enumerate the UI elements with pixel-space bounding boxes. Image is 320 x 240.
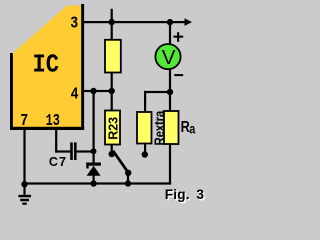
ground bar 2 bbox=[20, 199, 29, 201]
bottom rail wire bbox=[25, 182, 172, 184]
capacitor C7 left plate bbox=[70, 142, 73, 160]
wire voltmeter minus lead bbox=[169, 70, 171, 92]
pin 13 label bbox=[46, 112, 60, 131]
diode D1 cathode bar bbox=[86, 163, 101, 166]
svg-text:3: 3 bbox=[196, 187, 204, 202]
pin 7 label bbox=[20, 111, 28, 131]
wire C7 right lead bbox=[77, 150, 94, 152]
wire R1 to node B bbox=[111, 72, 113, 92]
wire pin3 horizontal bbox=[84, 21, 185, 23]
wire C7 left lead bbox=[55, 150, 70, 152]
wire R23 to switch terminal bbox=[111, 145, 113, 152]
wire pin7 down bbox=[23, 130, 25, 185]
diode D1 triangle bbox=[87, 166, 101, 176]
node A junction bbox=[109, 19, 115, 25]
switch pivot bbox=[125, 170, 131, 176]
switch terminal a bbox=[109, 151, 115, 157]
wire node minus down to Ra bbox=[169, 92, 171, 112]
voltmeter V1 body bbox=[155, 44, 180, 69]
minus sign bbox=[174, 74, 183, 76]
node top rail voltmeter junction bbox=[167, 19, 173, 25]
wire node A down to R1 bbox=[111, 22, 113, 40]
svg-text:V: V bbox=[162, 46, 176, 69]
switch terminal b bbox=[142, 151, 148, 157]
ground stem bbox=[23, 184, 25, 195]
node bottom rail diode junction bbox=[90, 180, 96, 186]
capacitor C7 right plate bbox=[74, 142, 77, 160]
wire stub above node A bbox=[111, 9, 113, 22]
IC right edge bbox=[81, 4, 84, 130]
svg-text:IC: IC bbox=[33, 51, 60, 80]
svg-text:Fig.: Fig. bbox=[165, 187, 190, 202]
op-amp IC body bbox=[13, 6, 81, 131]
ground bar 3 bbox=[22, 203, 26, 205]
wire node B down to R23 bbox=[111, 91, 113, 111]
svg-text:C7: C7 bbox=[49, 155, 67, 169]
arrow output bbox=[185, 18, 193, 26]
wire pivot to bottom rail bbox=[127, 173, 129, 184]
wire minus net horizontal bbox=[144, 91, 170, 93]
svg-text:R: R bbox=[181, 119, 190, 136]
svg-text:a: a bbox=[189, 121, 195, 137]
resistor R23 bbox=[105, 111, 120, 145]
node bottom rail switch junction bbox=[125, 180, 131, 186]
ground bar 1 bbox=[18, 195, 31, 198]
svg-text:3: 3 bbox=[70, 13, 78, 33]
node ground junction bbox=[21, 181, 27, 187]
pin 4 label bbox=[71, 84, 79, 104]
wire pin4 branch down to diode bbox=[93, 91, 95, 163]
resistor Rextra bbox=[137, 112, 152, 144]
node minus net junction bbox=[167, 89, 173, 95]
diode D1 cathode wing bbox=[86, 163, 88, 169]
wire Ra down to bottom rail bbox=[169, 144, 171, 185]
node C7 right lead junction bbox=[91, 148, 97, 154]
pin 3 label bbox=[70, 13, 78, 33]
wire voltmeter plus lead bbox=[169, 22, 171, 44]
node B junction bbox=[109, 88, 115, 94]
wire down to Rextra bbox=[144, 91, 146, 113]
resistor Ra label bbox=[181, 119, 190, 136]
IC bottom edge bbox=[10, 127, 84, 130]
svg-text:13: 13 bbox=[46, 112, 60, 131]
plus sign vertical bbox=[177, 32, 179, 42]
wire diode to bottom rail bbox=[93, 176, 95, 185]
plus sign horizontal bbox=[173, 36, 183, 38]
IC label bbox=[33, 51, 60, 80]
svg-text:7: 7 bbox=[20, 111, 28, 131]
wire pin13 down bbox=[55, 130, 57, 153]
svg-text:R23: R23 bbox=[107, 117, 121, 140]
svg-text:4: 4 bbox=[71, 84, 79, 104]
wire Rextra to terminal bbox=[144, 144, 146, 153]
wire pin4 horizontal bbox=[84, 90, 112, 92]
switch blade bbox=[113, 151, 128, 173]
IC left edge bbox=[10, 53, 13, 130]
resistor R1 (unlabeled) bbox=[105, 40, 121, 73]
node pin4 branch junction bbox=[90, 88, 96, 94]
resistor Ra bbox=[164, 111, 179, 144]
